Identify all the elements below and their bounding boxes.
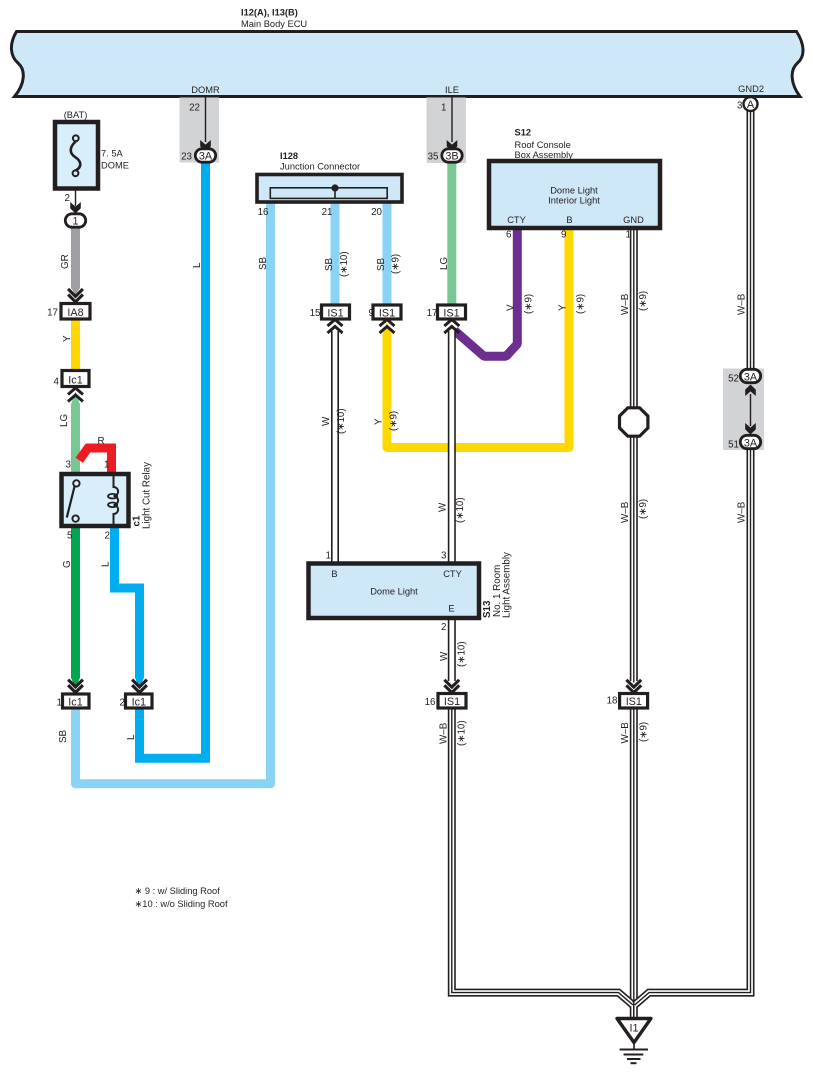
relay coil xyxy=(114,476,119,524)
wire Y IA8 to Ic1 xyxy=(71,318,80,372)
svg-text:∗10 : w/o Sliding Roof: ∗10 : w/o Sliding Roof xyxy=(135,899,228,909)
node 1 wire in ILE block xyxy=(451,98,453,143)
svg-text:SB: SB xyxy=(258,256,269,270)
svg-text:(∗10): (∗10) xyxy=(455,497,466,523)
junction bus bar xyxy=(270,188,387,199)
svg-text:W: W xyxy=(438,502,449,512)
chevron arrow down into IS1 pin18 xyxy=(626,680,641,693)
svg-text:Box Assembly: Box Assembly xyxy=(515,150,574,160)
ground symbol xyxy=(633,1043,635,1050)
svg-text:1: 1 xyxy=(72,216,78,228)
wire L relay pin2 jog to Ic1 xyxy=(115,524,140,678)
wire W IS1 17 to dome CTY xyxy=(448,331,456,566)
svg-text:G: G xyxy=(62,560,73,568)
wire R relay pin1 loop xyxy=(79,448,111,476)
svg-text:6: 6 xyxy=(506,230,512,241)
svg-text:W–B: W–B xyxy=(737,293,748,315)
svg-text:GND: GND xyxy=(623,215,644,225)
svg-text:22: 22 xyxy=(189,103,200,114)
chevron arrow down into IA8 xyxy=(68,289,83,302)
svg-text:ILE: ILE xyxy=(445,85,459,95)
svg-text:(∗10): (∗10) xyxy=(336,408,347,434)
fuse pin 2 wire xyxy=(75,189,77,207)
connector Ic1 pin1 xyxy=(63,694,90,708)
svg-text:Y: Y xyxy=(558,304,569,311)
svg-text:(∗9): (∗9) xyxy=(639,722,650,742)
svg-text:W–B: W–B xyxy=(439,722,450,744)
svg-text:Ic1: Ic1 xyxy=(68,375,82,387)
ECU band I12(A), I13(B) Main Body ECU xyxy=(11,32,803,97)
node 3A ellipse xyxy=(195,149,215,162)
svg-text:W: W xyxy=(439,651,450,661)
arrow down ILE xyxy=(447,140,458,152)
svg-text:∗ 9 : w/ Sliding Roof: ∗ 9 : w/ Sliding Roof xyxy=(135,886,221,896)
svg-text:R: R xyxy=(97,436,104,447)
svg-text:2: 2 xyxy=(441,622,446,633)
svg-text:(∗9): (∗9) xyxy=(576,294,587,314)
svg-text:I128: I128 xyxy=(280,151,298,161)
svg-text:LG: LG xyxy=(59,414,70,427)
wire W IS1 15 to dome B xyxy=(331,331,339,566)
svg-text:(∗10): (∗10) xyxy=(457,641,468,667)
wire W-B GND2 A to 52 xyxy=(747,110,755,370)
wire W-B IS1 16 to ground xyxy=(452,706,633,1005)
svg-text:7. 5A: 7. 5A xyxy=(101,149,124,159)
svg-text:Ic1: Ic1 xyxy=(68,697,82,709)
chevron arrow up from Ic1 pin4 xyxy=(68,388,83,402)
junction dot xyxy=(331,184,338,191)
wire Y IS1 9 to S12 pin B xyxy=(387,226,569,448)
wire between 52 and 51 xyxy=(750,394,752,426)
svg-text:2: 2 xyxy=(65,193,70,204)
svg-text:Ic1: Ic1 xyxy=(132,697,146,709)
wire SB Ic1 to junction I128 pin16 xyxy=(76,200,271,784)
svg-text:9: 9 xyxy=(369,308,374,319)
svg-text:(∗10): (∗10) xyxy=(457,720,468,746)
svg-text:I12(A), I13(B): I12(A), I13(B) xyxy=(241,8,298,18)
wire W-B center reinforce stripe xyxy=(633,1000,635,1020)
svg-text:5: 5 xyxy=(67,531,73,542)
gray block 52/51 xyxy=(723,369,764,451)
svg-text:W–B: W–B xyxy=(737,501,748,523)
svg-text:3: 3 xyxy=(66,460,72,471)
W-B stripe pass xyxy=(634,109,751,1020)
node A circle under GND2 xyxy=(744,97,758,111)
wire W-B 51 to ground xyxy=(635,448,751,1005)
svg-text:B: B xyxy=(566,215,572,225)
svg-text:Junction Connector: Junction Connector xyxy=(280,162,360,172)
arrow down to 51 xyxy=(745,423,756,435)
svg-text:(∗9): (∗9) xyxy=(524,294,535,314)
wire LG ILE 3B to IS1 17 xyxy=(447,160,456,307)
svg-text:SB: SB xyxy=(58,729,69,743)
arrow up to 52 xyxy=(745,385,756,397)
svg-text:35: 35 xyxy=(428,152,439,163)
svg-text:Light Cut Relay: Light Cut Relay xyxy=(142,462,153,529)
connector Ic1 pin4 xyxy=(62,371,89,387)
wire GR fuse to IA8 xyxy=(71,226,80,289)
svg-text:52: 52 xyxy=(728,374,739,385)
connector IS1 pin15 xyxy=(322,305,350,319)
svg-text:IS1: IS1 xyxy=(327,308,343,320)
svg-text:S12: S12 xyxy=(515,128,532,138)
svg-text:(∗10): (∗10) xyxy=(339,251,350,277)
svg-text:Light Assembly: Light Assembly xyxy=(502,552,513,618)
connector IA8 xyxy=(61,304,90,320)
svg-text:51: 51 xyxy=(728,440,739,451)
relay switch xyxy=(67,487,75,518)
chevron arrow up from IS1 pin15 xyxy=(328,320,343,334)
svg-text:18: 18 xyxy=(607,696,618,707)
svg-text:3: 3 xyxy=(737,101,743,112)
node 1 ellipse xyxy=(65,214,85,227)
arrow down fuse xyxy=(70,202,81,214)
wire LG Ic1 to relay pin3 xyxy=(71,404,80,477)
S12 Roof Console Box Assembly box xyxy=(489,161,660,228)
wire L from DOMR 3A down and to relay pin2 xyxy=(140,160,206,758)
arrow down DOMR xyxy=(200,140,211,152)
wire G relay pin5 to Ic1 xyxy=(71,524,80,678)
connector Ic1 pin2 xyxy=(126,694,153,708)
wire W dome E to IS1 16 xyxy=(448,616,456,681)
fuse element xyxy=(71,141,81,170)
chevron arrow down into IS1 pin16 xyxy=(444,680,459,693)
svg-text:3A: 3A xyxy=(744,372,758,384)
svg-text:CTY: CTY xyxy=(443,569,462,579)
octagon noise filter on W-B xyxy=(620,408,648,436)
svg-text:A: A xyxy=(747,99,755,111)
svg-text:L: L xyxy=(192,262,203,268)
svg-text:2: 2 xyxy=(105,531,110,542)
svg-text:Roof Console: Roof Console xyxy=(515,140,571,150)
svg-text:1: 1 xyxy=(104,460,109,471)
node 3A ellipse 51 xyxy=(740,435,760,448)
svg-text:3A: 3A xyxy=(199,151,213,163)
wire V S12 CTY to IS1 17 xyxy=(455,226,518,356)
svg-text:(∗9): (∗9) xyxy=(638,291,649,311)
connector IS1 pin9 xyxy=(373,305,401,319)
svg-text:Main Body ECU: Main Body ECU xyxy=(241,19,307,29)
svg-text:15: 15 xyxy=(310,308,321,319)
svg-text:LG: LG xyxy=(439,257,450,270)
chevron arrow up from IS1 pin17 xyxy=(444,320,459,334)
svg-text:(∗9): (∗9) xyxy=(389,411,400,431)
connector IS1 pin16 xyxy=(438,694,466,709)
node 3A ellipse 52 xyxy=(740,369,760,382)
svg-text:E: E xyxy=(448,604,454,614)
svg-text:W: W xyxy=(321,416,332,426)
svg-text:GR: GR xyxy=(60,254,71,269)
svg-text:1: 1 xyxy=(326,551,331,562)
svg-text:Dome Light: Dome Light xyxy=(550,186,598,196)
svg-text:17: 17 xyxy=(47,308,58,319)
connector IS1 pin17 xyxy=(438,305,466,319)
svg-text:IS1: IS1 xyxy=(444,696,460,708)
svg-text:(BAT): (BAT) xyxy=(64,110,88,120)
svg-text:IS1: IS1 xyxy=(626,696,642,708)
S13 No.1 Room Light Assembly dome light box xyxy=(309,564,480,619)
node 22 wire in DOMR block xyxy=(205,98,207,143)
svg-text:3B: 3B xyxy=(445,151,458,163)
svg-text:DOME: DOME xyxy=(101,161,129,171)
svg-text:I1: I1 xyxy=(629,1023,638,1035)
junction connector I128 box xyxy=(257,175,402,203)
svg-text:W–B: W–B xyxy=(620,722,631,744)
wire W-B IS1 18 to ground xyxy=(630,706,638,1020)
svg-text:W–B: W–B xyxy=(620,293,631,315)
svg-text:(∗9): (∗9) xyxy=(638,499,649,519)
svg-text:IS1: IS1 xyxy=(443,308,459,320)
svg-text:2: 2 xyxy=(120,698,125,709)
svg-text:B: B xyxy=(331,569,337,579)
relay c1 Light Cut Relay box xyxy=(62,474,129,526)
svg-text:SB: SB xyxy=(324,257,335,271)
svg-text:3: 3 xyxy=(441,551,447,562)
svg-text:GND2: GND2 xyxy=(738,84,764,94)
gray block ILE xyxy=(427,98,467,164)
node 3B ellipse xyxy=(442,149,462,162)
chevron arrow up from IS1 pin9 xyxy=(380,320,395,334)
svg-text:23: 23 xyxy=(181,152,192,163)
wire W-B S12 GND to IS1 18 xyxy=(630,226,638,681)
svg-text:Dome Light: Dome Light xyxy=(370,587,418,597)
svg-text:1: 1 xyxy=(57,698,62,709)
svg-text:Y: Y xyxy=(62,335,73,342)
svg-text:20: 20 xyxy=(371,207,382,218)
chevron arrow down into Ic1 pin2 xyxy=(132,680,147,693)
svg-text:DOMR: DOMR xyxy=(191,85,220,95)
svg-text:1: 1 xyxy=(626,230,631,241)
svg-text:IA8: IA8 xyxy=(67,307,83,319)
svg-text:(∗9): (∗9) xyxy=(391,254,402,274)
svg-text:CTY: CTY xyxy=(507,215,526,225)
fuse DOME 7.5A box xyxy=(55,122,98,189)
svg-text:SB: SB xyxy=(376,257,387,271)
svg-text:9: 9 xyxy=(561,230,566,241)
svg-text:16: 16 xyxy=(258,207,269,218)
svg-text:Interior Light: Interior Light xyxy=(548,196,600,206)
connector IS1 pin18 xyxy=(620,694,648,709)
gray block DOMR xyxy=(180,98,220,163)
wire SB junction pin21 to IS1 15 xyxy=(331,200,340,307)
white wires black pass xyxy=(335,110,751,1020)
chevron arrow down into Ic1 pin1 xyxy=(68,680,83,693)
svg-text:V: V xyxy=(506,304,517,311)
svg-text:L: L xyxy=(126,734,137,740)
svg-text:L: L xyxy=(101,561,112,567)
svg-text:21: 21 xyxy=(322,207,333,218)
svg-text:W–B: W–B xyxy=(620,501,631,523)
wire SB junction pin20 to IS1 9 xyxy=(383,200,392,307)
ground triangle I1 xyxy=(617,1019,651,1043)
svg-text:17: 17 xyxy=(427,308,438,319)
svg-text:Y: Y xyxy=(374,418,385,425)
svg-text:1: 1 xyxy=(441,103,446,114)
svg-text:4: 4 xyxy=(54,377,60,388)
svg-text:16: 16 xyxy=(425,697,436,708)
svg-text:3A: 3A xyxy=(744,438,758,450)
white wires white pass xyxy=(335,109,751,1020)
